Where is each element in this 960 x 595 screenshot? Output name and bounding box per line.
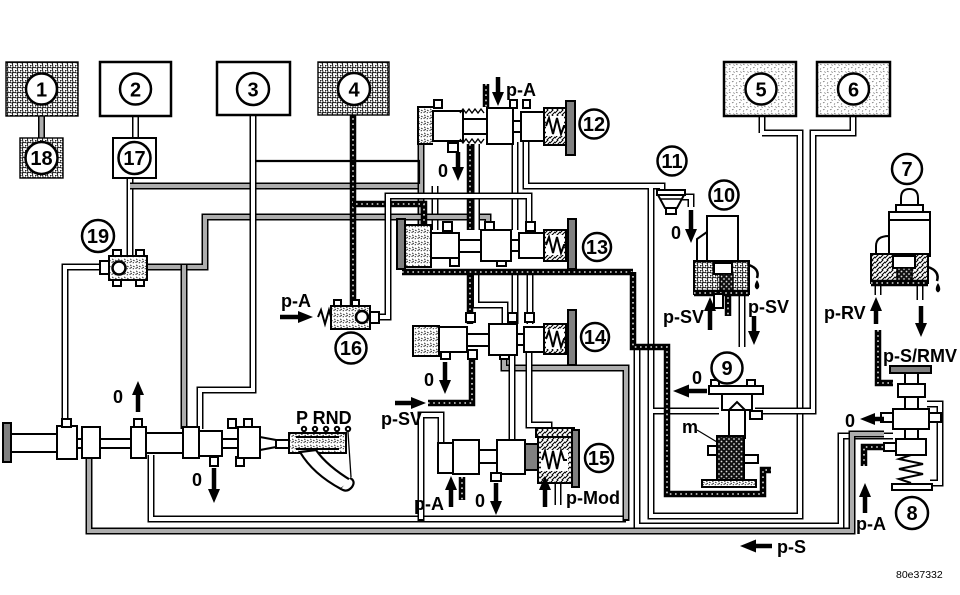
circle 10: [710, 181, 739, 210]
wire p-SV inlet to valve14 bottom (dotted): [428, 352, 472, 403]
arrow 0 down below manual valve: [192, 468, 220, 503]
arrow 0 down at restrictor 11: [671, 210, 697, 243]
wire valve12 left column down to valve13 left end (speckled): [418, 142, 425, 230]
svg-text:p-SV: p-SV: [663, 307, 704, 327]
svg-text:14: 14: [584, 327, 607, 349]
valve 9 (secondary pump valve) with mass m: [697, 380, 763, 487]
svg-text:1: 1: [36, 80, 47, 102]
svg-text:0: 0: [192, 470, 202, 490]
label p-RV up arrow: [824, 297, 882, 324]
wire dotted-channel junction down to valve8 left port: [637, 349, 893, 526]
svg-text:5: 5: [755, 80, 766, 102]
arrow 0 left at valve8: [845, 411, 884, 431]
arrow 0 up left-middle: [113, 381, 144, 412]
circle 8: [896, 497, 928, 529]
dark dotted channel from valve13 under solenoid10 and around valve9: [402, 272, 771, 494]
wire box17 down to valve19: [127, 176, 134, 258]
check valve 16: [318, 300, 379, 329]
svg-text:p-RV: p-RV: [824, 303, 866, 323]
circle 15: [585, 444, 613, 472]
ARROWS AND LABELS: [113, 77, 957, 581]
valve 8 (pressure relief valve): [881, 366, 941, 490]
svg-text:p-SV: p-SV: [748, 297, 789, 317]
wire valve8 right recirculation loop: [927, 404, 940, 483]
box 2: [100, 62, 171, 116]
svg-text:19: 19: [87, 226, 109, 248]
label 80e37332: [896, 569, 943, 581]
arrow p-A top down: [492, 77, 536, 106]
circle 14: [581, 323, 609, 351]
arrow p-A up at valve8: [856, 483, 886, 534]
wire valve12 bottom port to valve13 top: [512, 142, 519, 230]
wire valve12 bottom to restrictor 11: [526, 142, 662, 192]
svg-text:p-Mod: p-Mod: [566, 488, 620, 508]
wire valve13 channel to valve14 (dotted): [467, 272, 474, 324]
valve 12 (shift valve): [418, 100, 575, 155]
wire valve19 right port riser and y217 speckled line into valve13 top: [145, 217, 488, 267]
wire thin line from box3 junction to valve12 left column: [253, 161, 419, 184]
wire box4 down to valve16 (dotted): [350, 113, 357, 308]
valve 14 (shift valve): [413, 310, 576, 365]
arrow p-S left at bottom: [740, 537, 806, 557]
solenoid valve 7: [871, 189, 940, 293]
arrow down to p-S/RMV: [883, 306, 957, 366]
svg-text:7: 7: [901, 159, 912, 181]
wire valve14 bottom to valve15 top ports: [512, 352, 549, 442]
wire speckled horizontal y186 from x130 to valve12 left column: [130, 183, 421, 190]
arrow 0 down below valve14: [424, 362, 451, 394]
valve 13 (shift valve): [397, 219, 576, 269]
wire manual valve port via bottom line y519 up to valve14 bottom port: [151, 455, 626, 519]
wire solenoid10 bottom dotted stub: [725, 292, 732, 316]
svg-text:0: 0: [692, 368, 702, 388]
svg-text:m: m: [682, 417, 698, 437]
wire solenoid7 left stub: [875, 281, 882, 295]
svg-text:P RND: P RND: [296, 408, 352, 428]
svg-text:p-S: p-S: [777, 537, 806, 557]
arrow 0 down at valve15: [475, 483, 502, 515]
svg-text:17: 17: [123, 148, 145, 170]
circle 19: [82, 220, 114, 252]
svg-text:16: 16: [340, 338, 362, 360]
wire valve15 p-A dotted stub: [459, 477, 466, 500]
wire box3 down to manual valve: [200, 113, 253, 429]
svg-text:12: 12: [583, 114, 605, 136]
wire p-A inlet to valve12 (dotted): [483, 84, 490, 107]
wire valve13 to valve14 jog: [476, 270, 505, 324]
box 6: [817, 62, 890, 116]
check valve 19: [100, 250, 147, 286]
svg-text:p-A: p-A: [506, 80, 536, 100]
wire p-S line from manual valve to valve8 bottom (speckled): [89, 434, 884, 531]
svg-text:p-A: p-A: [856, 514, 886, 534]
arrow p-A up at valve15: [414, 476, 457, 514]
box 18: [20, 138, 63, 178]
svg-text:80e37332: 80e37332: [896, 569, 943, 581]
svg-text:p-A: p-A: [414, 494, 444, 514]
label P RND above manual valve: [296, 408, 352, 431]
wire p-RV dotted down into valve8 top: [878, 330, 893, 383]
wire valve19 left port to manual valve top port: [65, 267, 112, 429]
svg-text:0: 0: [671, 223, 681, 243]
label p-SV up at solenoid10 left: [663, 297, 716, 330]
circle 9: [712, 353, 743, 384]
svg-text:6: 6: [848, 80, 859, 102]
wire valve8 mid-left dotted port: [864, 447, 893, 466]
wire branch to valve15 top-left port: [421, 415, 441, 521]
wire restrictor junction down, branch to valve9, loop to box5: [651, 114, 800, 516]
svg-text:p-A: p-A: [281, 291, 311, 311]
svg-text:0: 0: [438, 161, 448, 181]
svg-text:10: 10: [713, 185, 735, 207]
wire box2 to box17: [132, 114, 139, 140]
circle 11: [658, 147, 687, 176]
wire valve15 p-Mod stub: [555, 477, 562, 505]
wire restrictor 11 right outlet: [681, 197, 691, 207]
arrow p-A right into valve16: [280, 291, 313, 323]
wire box1 to box18 (dotted): [38, 114, 45, 140]
svg-text:0: 0: [845, 411, 855, 431]
svg-text:4: 4: [348, 80, 360, 102]
box 1: [6, 62, 78, 116]
box 5: [724, 62, 796, 116]
arrow p-Mod up at valve15: [539, 476, 620, 508]
VALVES: [3, 100, 941, 491]
detent lever: [300, 450, 352, 489]
manual valve (selector): [3, 419, 354, 491]
wire box6 down to valve9 right port: [755, 114, 853, 411]
PIPES: [42, 84, 941, 531]
svg-text:p-S/RMV: p-S/RMV: [883, 346, 957, 366]
svg-text:0: 0: [113, 387, 123, 407]
box 3: [217, 62, 290, 115]
svg-text:0: 0: [475, 491, 485, 511]
wire valve12 bottom dotted line to valve13: [467, 144, 474, 230]
svg-text:8: 8: [906, 503, 917, 525]
svg-text:15: 15: [588, 448, 610, 470]
wire solenoid7 right stub down (p-S/RMV): [917, 281, 924, 300]
box 4: [318, 62, 389, 115]
wire valve19 right junction down to manual valve (dotted): [181, 265, 188, 429]
restrictor with filter 11: [657, 190, 685, 214]
svg-text:2: 2: [130, 80, 141, 102]
circle 7: [892, 154, 922, 184]
box 17: [113, 138, 156, 178]
svg-text:p-SV: p-SV: [381, 409, 422, 429]
wire valve16 right port up to valve13 top: [376, 196, 529, 317]
label m at valve9: [682, 417, 698, 437]
arrow 0 down at valve12: [438, 152, 464, 181]
wire branch from box4 line to valve13 left end (dotted): [353, 204, 424, 230]
wire valve12 bottom port2 to valve13: [473, 144, 480, 230]
svg-text:3: 3: [247, 80, 258, 102]
BOXES: [6, 62, 928, 529]
circle 12: [580, 110, 609, 139]
svg-text:11: 11: [661, 151, 682, 173]
circle 16: [336, 333, 367, 364]
circle 13: [583, 233, 611, 261]
arrow p-SV right into valve14 line: [381, 397, 426, 429]
label p-SV down at solenoid10 right: [748, 297, 789, 345]
wire valve13 to valve14 connections: [515, 270, 530, 324]
valve 15 (modulating pressure valve): [438, 428, 579, 487]
svg-text:18: 18: [30, 148, 52, 170]
wire solenoid10 outlet down to channel: [739, 292, 746, 347]
arrow 0 left at valve9: [673, 368, 707, 398]
solenoid valve 10: [694, 216, 759, 308]
svg-text:0: 0: [424, 370, 434, 390]
wire drop from y186 line into valve13 top: [432, 186, 439, 230]
svg-text:9: 9: [721, 358, 732, 380]
svg-text:13: 13: [586, 237, 608, 259]
